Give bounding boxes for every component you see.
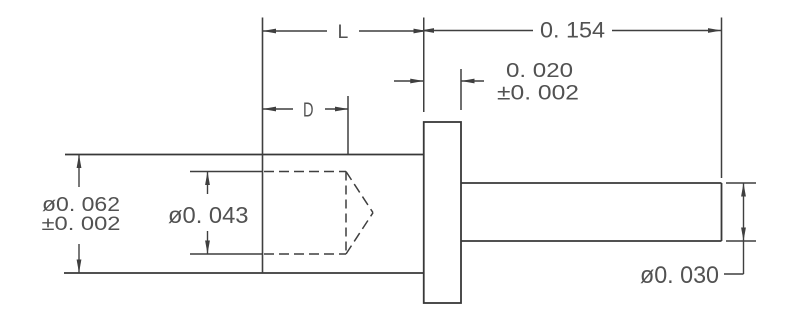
dimension 0.020 tolerance label — [497, 81, 579, 105]
svg-text:0. 020: 0. 020 — [506, 59, 573, 82]
dimension dia 0.030 label — [640, 262, 719, 289]
svg-text:D: D — [303, 98, 314, 121]
pin end face — [721, 183, 723, 241]
body left face / L-D extension line — [262, 18, 264, 274]
dimension 0.020 arrows — [394, 79, 484, 84]
extension line pin top right — [726, 182, 756, 184]
svg-text:±0. 002: ±0. 002 — [497, 81, 579, 105]
hidden cone lower slant — [346, 213, 373, 254]
hidden cone upper slant — [346, 172, 373, 213]
dimension dia 0.043 line — [205, 172, 210, 255]
pin bottom line — [461, 240, 722, 242]
dimension dia 0.062 tolerance label — [42, 213, 121, 235]
pin top line — [461, 182, 722, 184]
extension line flange left — [423, 18, 425, 113]
hidden hole top dashed line — [264, 171, 346, 173]
dimension L line — [263, 29, 428, 34]
dimension dia 0.043 label — [168, 202, 249, 228]
extension line hole top left — [190, 171, 263, 173]
dimension D line — [263, 107, 349, 112]
extension line D right — [347, 96, 349, 155]
dimension dia 0.062 label — [42, 194, 120, 216]
hidden hole depth dashed line — [345, 172, 347, 255]
dimension D label — [303, 98, 314, 121]
extension line pin bottom right — [726, 240, 756, 242]
hidden hole bottom dashed line — [264, 253, 346, 255]
dimension 0.154 line — [421, 28, 722, 33]
svg-text:L: L — [338, 22, 349, 43]
extension line pin end — [721, 18, 723, 179]
extension line hole bottom left — [190, 253, 263, 255]
dimension dia 0.030 line — [724, 183, 746, 274]
dimension dia 0.062 line — [77, 155, 82, 274]
svg-text:±0. 002: ±0. 002 — [42, 213, 121, 235]
dimension 0.020 label — [506, 59, 573, 82]
dimension 0.154 label — [540, 18, 605, 43]
extension line flange right — [460, 69, 462, 110]
svg-text:ø0. 043: ø0. 043 — [168, 202, 249, 228]
flange outline — [424, 122, 461, 303]
svg-text:ø0. 030: ø0. 030 — [640, 262, 719, 289]
body outline top line with left extension — [65, 154, 424, 156]
svg-text:0. 154: 0. 154 — [540, 18, 605, 43]
dimension L label — [338, 22, 349, 43]
body outline bottom line with left extension — [64, 272, 424, 274]
